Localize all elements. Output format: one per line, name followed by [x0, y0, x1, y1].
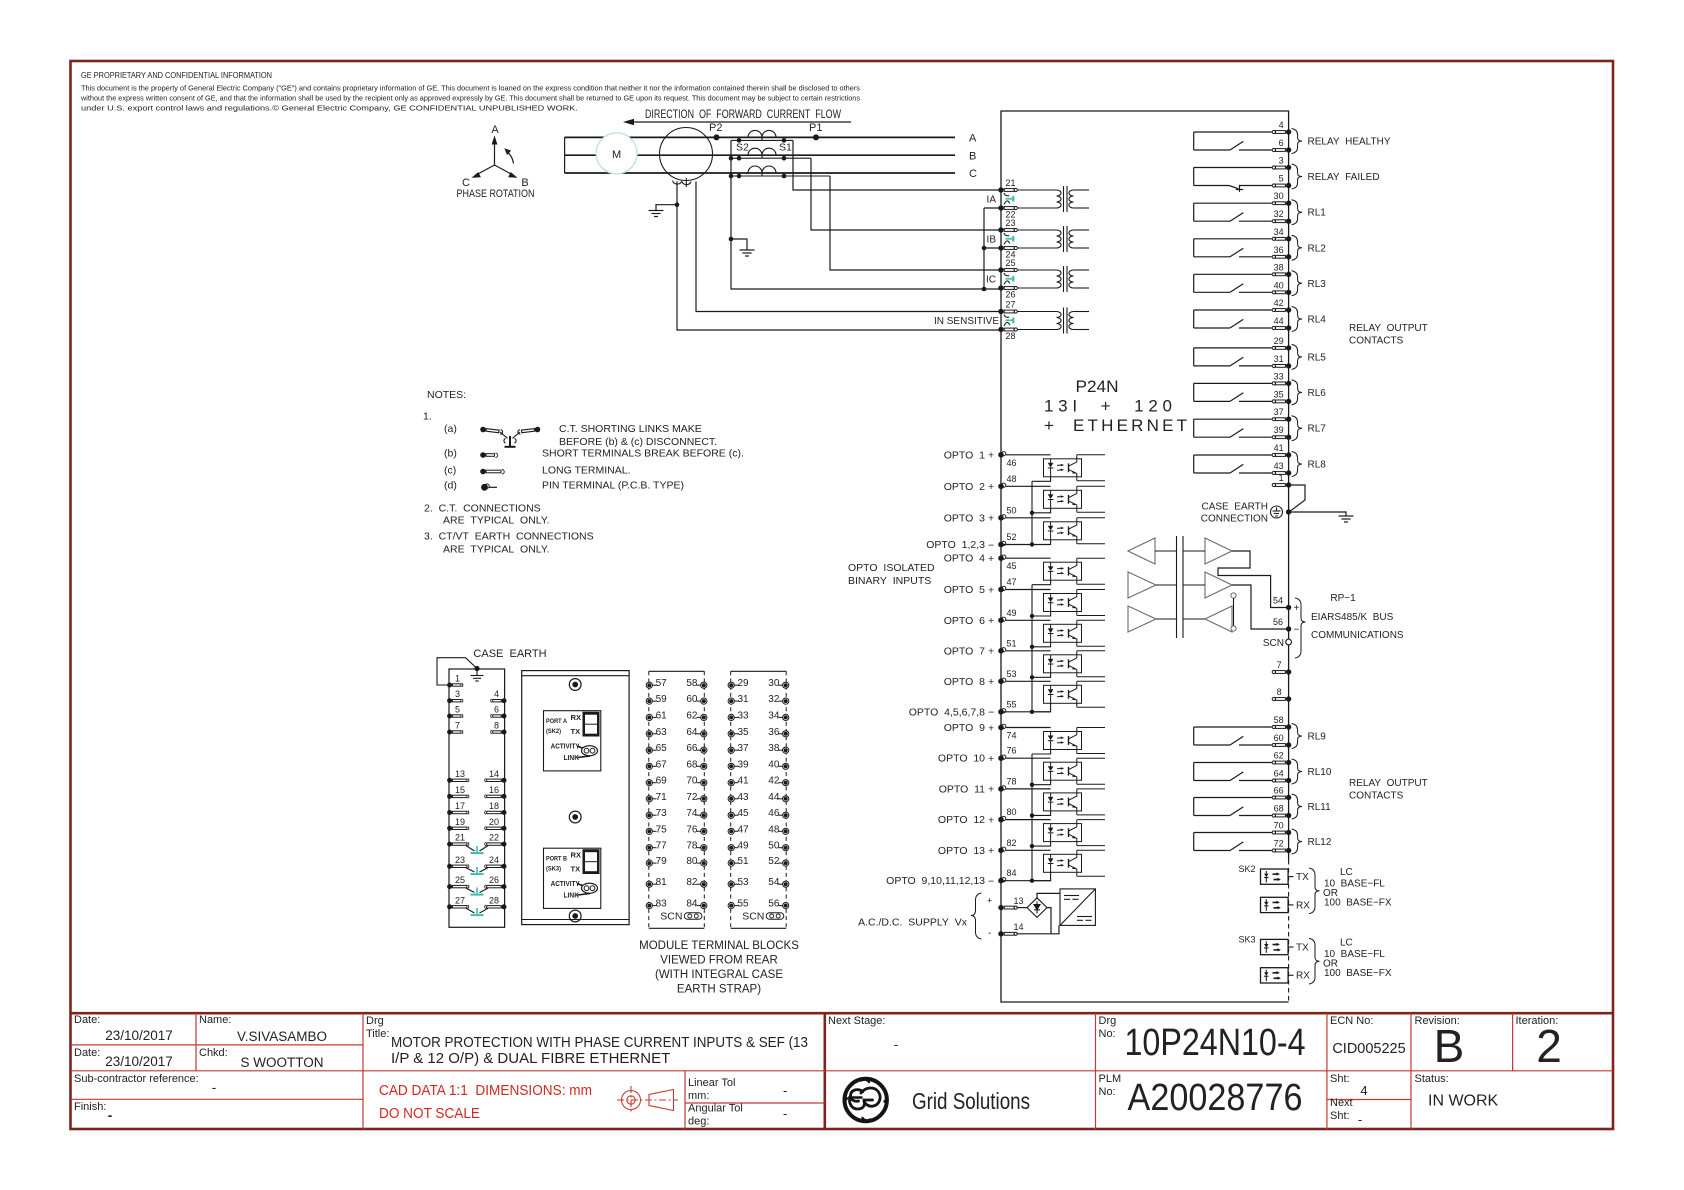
- svg-text:OPTO 11: OPTO 11: [939, 783, 985, 795]
- svg-text:29: 29: [1274, 336, 1284, 346]
- block TB1 terminal 67: [646, 763, 656, 769]
- svg-text:31: 31: [1274, 354, 1284, 364]
- block TB2 terminal 34: [779, 714, 789, 720]
- svg-text:16: 16: [489, 785, 499, 795]
- svg-text:OPTO 8: OPTO 8: [944, 676, 985, 688]
- terminal 4: [1272, 129, 1291, 134]
- svg-text:25: 25: [1006, 258, 1016, 268]
- block TB2 terminal 29: [728, 682, 738, 688]
- strip terminal 28: [485, 904, 507, 909]
- svg-text:36: 36: [768, 727, 780, 738]
- svg-text:56: 56: [1273, 617, 1283, 627]
- svg-text:4: 4: [494, 689, 499, 699]
- svg-text:18: 18: [489, 801, 499, 811]
- svg-text:39: 39: [738, 759, 750, 770]
- block TB2 terminal 36: [779, 731, 789, 737]
- wire bridge right to 14: [1017, 908, 1060, 934]
- svg-text:OPTO ISOLATED: OPTO ISOLATED: [848, 562, 935, 574]
- svg-text:Status:: Status:: [1415, 1073, 1449, 1085]
- svg-text:1: 1: [455, 674, 460, 684]
- svg-text:6: 6: [1279, 138, 1284, 148]
- svg-text:17: 17: [455, 801, 465, 811]
- block TB1 terminal 73: [646, 812, 656, 818]
- svg-text:78: 78: [1007, 776, 1017, 786]
- svg-text:OPTO 1,2,3: OPTO 1,2,3: [926, 539, 985, 551]
- svg-text:RL4: RL4: [1308, 315, 1327, 326]
- svg-text:OPTO 6: OPTO 6: [944, 615, 985, 627]
- proprietary notice body: [80, 84, 860, 113]
- strip terminal 3: [447, 698, 463, 703]
- svg-text:23/10/2017: 23/10/2017: [105, 1054, 173, 1069]
- svg-text:72: 72: [686, 792, 698, 803]
- block TB1 terminal 70: [697, 780, 707, 786]
- motor M: [596, 133, 637, 174]
- buffer U2 tx left: [1128, 572, 1156, 598]
- opto input terminal 80 (OPTO 12): [998, 816, 1006, 822]
- svg-text:V.SIVASAMBO: V.SIVASAMBO: [237, 1029, 327, 1044]
- svg-text:+: +: [988, 584, 994, 596]
- block TB2 terminal 49: [728, 845, 738, 851]
- strip shorting earth link: [466, 846, 475, 851]
- svg-text:84: 84: [1007, 868, 1017, 878]
- svg-text:79: 79: [656, 856, 668, 867]
- svg-text:58: 58: [1274, 715, 1284, 725]
- svg-text:5: 5: [455, 705, 460, 715]
- svg-text:37: 37: [738, 743, 750, 754]
- svg-text:2: 2: [1536, 1020, 1562, 1072]
- svg-text:LC: LC: [1340, 937, 1353, 948]
- svg-text:73: 73: [656, 808, 668, 819]
- optocoupler U-OPTO4: [1006, 558, 1105, 585]
- svg-text:VIEWED FROM REAR: VIEWED FROM REAR: [660, 955, 778, 967]
- svg-text:27: 27: [455, 895, 465, 905]
- svg-text:DIRECTION OF FORWARD CURREN: DIRECTION OF FORWARD CURRENT FLOW: [645, 109, 841, 121]
- block TB2 terminal 54: [779, 881, 789, 887]
- opto minus bus group 2: [1031, 585, 1033, 712]
- svg-text:Sht:: Sht:: [1330, 1073, 1350, 1085]
- block TB2 terminal 33: [728, 714, 738, 720]
- svg-text:46: 46: [1007, 458, 1017, 468]
- svg-text:ACTIVITY: ACTIVITY: [551, 742, 580, 751]
- strip terminal 22: [485, 842, 507, 847]
- relay contact RL11: [1194, 798, 1277, 816]
- svg-text:69: 69: [656, 776, 668, 787]
- svg-text:RELAY FAILED: RELAY FAILED: [1308, 172, 1380, 183]
- svg-text:IA: IA: [987, 194, 997, 205]
- relay contact RELAY HEALTHY: [1194, 132, 1277, 150]
- svg-text:PHASE ROTATION: PHASE ROTATION: [457, 188, 535, 200]
- core CT secondary humps: [673, 181, 692, 185]
- svg-text:67: 67: [656, 759, 668, 770]
- relay contact RELAY FAILED: [1194, 168, 1277, 192]
- brace RL7: [1292, 416, 1303, 441]
- svg-text:40: 40: [768, 759, 780, 770]
- terminal 64: [1272, 778, 1291, 783]
- svg-text:34: 34: [768, 710, 780, 721]
- svg-text:LC: LC: [1340, 867, 1353, 878]
- block TB1 terminal 63: [646, 731, 656, 737]
- ground (case earth): [1339, 516, 1354, 522]
- note (d) symbol: pin terminal: [481, 484, 497, 491]
- svg-text:P24N: P24N: [1076, 377, 1119, 396]
- optocoupler U-OPTO11: [1006, 789, 1105, 816]
- svg-text:36: 36: [1274, 245, 1284, 255]
- fiber TX SK2: [1261, 869, 1294, 884]
- brace RL6: [1292, 380, 1303, 405]
- svg-text:20: 20: [489, 817, 499, 827]
- P24N model label: [1044, 377, 1187, 435]
- ground (CT common): [740, 250, 755, 256]
- svg-text:Title:: Title:: [366, 1028, 389, 1040]
- CT primary phase C: [748, 166, 776, 173]
- strip shorting earth link: [466, 888, 475, 892]
- block TB2 terminal 56: [779, 903, 789, 909]
- svg-text:3: 3: [1279, 156, 1284, 166]
- svg-text:RL3: RL3: [1308, 279, 1327, 290]
- opto minus bus group 1: [1031, 481, 1033, 544]
- opto input terminal 82 (OPTO 13): [998, 847, 1006, 853]
- svg-text:52: 52: [768, 856, 780, 867]
- svg-text:SCN: SCN: [1263, 638, 1284, 649]
- opto input terminal 49 (OPTO 6): [998, 617, 1006, 623]
- svg-text:No:: No:: [1099, 1086, 1116, 1098]
- svg-text:81: 81: [656, 877, 668, 888]
- strip terminal 23: [447, 864, 469, 869]
- relay contact RL5: [1194, 348, 1277, 366]
- strip terminal 6: [491, 714, 507, 719]
- svg-text:OPTO 4: OPTO 4: [944, 553, 985, 565]
- svg-text:47: 47: [1007, 577, 1017, 587]
- svg-text:Date:: Date:: [74, 1047, 100, 1059]
- svg-text:GE PROPRIETARY AND CONFIDENTIA: GE PROPRIETARY AND CONFIDENTIAL INFORMAT…: [81, 71, 272, 80]
- svg-text:4: 4: [1360, 1083, 1367, 1098]
- svg-text:A.C./D.C. SUPPLY Vx: A.C./D.C. SUPPLY Vx: [858, 917, 968, 929]
- svg-text:46: 46: [768, 808, 780, 819]
- svg-text:RX: RX: [1296, 900, 1310, 911]
- svg-text:(WITH INTEGRAL CASE: (WITH INTEGRAL CASE: [655, 969, 783, 981]
- relay contact RL6: [1194, 383, 1277, 401]
- svg-text:RX: RX: [571, 713, 582, 722]
- opto input terminal 84 (OPTO 9,10,11,12,13): [998, 878, 1006, 884]
- fiber brace SK3: [1309, 938, 1320, 984]
- svg-text:TX: TX: [1296, 872, 1309, 883]
- svg-text:BEFORE (b) & (c) DISCONNECT.: BEFORE (b) & (c) DISCONNECT.: [559, 436, 717, 448]
- svg-text:LINK: LINK: [564, 753, 580, 762]
- title block inner red lines: [71, 1013, 1614, 1129]
- svg-text:53: 53: [1007, 669, 1017, 679]
- svg-text:(c): (c): [444, 465, 456, 477]
- svg-text:EARTH STRAP): EARTH STRAP): [677, 984, 761, 996]
- block TB1 terminal 83: [646, 903, 656, 909]
- opto minus bus group 3: [1031, 754, 1033, 881]
- svg-text:OPTO 1: OPTO 1: [944, 449, 985, 461]
- brace RL11: [1292, 794, 1303, 819]
- svg-text:Angular Tol: Angular Tol: [688, 1103, 743, 1115]
- svg-text:Name:: Name:: [199, 1014, 231, 1026]
- svg-text:49: 49: [1007, 608, 1017, 618]
- svg-text:58: 58: [686, 678, 698, 689]
- enable link wire: [1233, 598, 1235, 626]
- opto input terminal 45 (OPTO 4): [998, 555, 1006, 561]
- block TB2 terminal 53: [728, 881, 738, 887]
- terminal 60: [1272, 742, 1291, 747]
- terminal 41: [1272, 452, 1291, 457]
- svg-text:43: 43: [1274, 461, 1284, 471]
- svg-text:OPTO 9: OPTO 9: [944, 722, 985, 734]
- note (a) symbol: shorting link: [480, 426, 541, 446]
- terminal 39: [1272, 435, 1291, 440]
- svg-text:70: 70: [1274, 821, 1284, 831]
- svg-text:(SK3): (SK3): [546, 866, 561, 873]
- svg-text:+: +: [988, 753, 994, 765]
- terminal 44: [1272, 325, 1291, 330]
- svg-text:A: A: [969, 133, 977, 145]
- svg-text:13: 13: [455, 769, 465, 779]
- block TB1 terminal 74: [697, 812, 707, 818]
- optocoupler U-OPTO12: [1006, 820, 1105, 847]
- svg-text:BINARY INPUTS: BINARY INPUTS: [848, 575, 931, 587]
- brace RL10: [1292, 759, 1303, 784]
- svg-text:50: 50: [768, 841, 780, 852]
- svg-text:62: 62: [1274, 751, 1284, 761]
- svg-text:66: 66: [1274, 786, 1284, 796]
- svg-text:14: 14: [1014, 922, 1024, 932]
- svg-text:78: 78: [686, 841, 698, 852]
- svg-text:71: 71: [656, 792, 668, 803]
- svg-text:76: 76: [1007, 746, 1017, 756]
- terminal 14: [998, 931, 1017, 936]
- block TB2 terminal 31: [728, 698, 738, 704]
- svg-text:56: 56: [768, 899, 780, 910]
- opto input terminal 55 (OPTO 4,5,6,7,8): [998, 709, 1006, 715]
- svg-text:64: 64: [1274, 769, 1284, 779]
- svg-text:61: 61: [656, 710, 668, 721]
- terminal 31: [1272, 363, 1291, 368]
- svg-text:B: B: [1434, 1020, 1465, 1072]
- svg-text:84: 84: [686, 899, 698, 910]
- svg-text:OPTO 10: OPTO 10: [938, 753, 985, 765]
- svg-text:44: 44: [1274, 316, 1284, 326]
- phase rotation symbol: [472, 136, 518, 178]
- relay contact RL8: [1194, 455, 1277, 473]
- svg-text:37: 37: [1274, 407, 1284, 417]
- svg-text:CONTACTS: CONTACTS: [1349, 791, 1404, 802]
- svg-text:P1: P1: [809, 122, 822, 134]
- block TB1 terminal 64: [697, 731, 707, 737]
- title block outer thick lines: [71, 1013, 1614, 1129]
- opto input terminal 47 (OPTO 5): [998, 586, 1006, 592]
- strip terminal 15: [447, 794, 469, 799]
- svg-text:+: +: [988, 450, 994, 462]
- case earth stud dot: [1286, 509, 1291, 514]
- svg-text:49: 49: [738, 841, 750, 852]
- terminal 62: [1272, 760, 1291, 765]
- phase bus B: [565, 154, 955, 156]
- strip terminal 8: [491, 730, 507, 735]
- svg-text:M: M: [612, 149, 621, 161]
- block TB2 terminal 50: [779, 845, 789, 851]
- supply brace: [971, 893, 982, 939]
- terminal 3: [1272, 165, 1291, 170]
- strip terminal 14: [485, 778, 507, 783]
- wire opto common 55: [1001, 711, 1051, 713]
- svg-text:CONTACTS: CONTACTS: [1349, 336, 1404, 347]
- svg-text:-: -: [108, 1108, 113, 1123]
- CT secondary phase B: [731, 157, 811, 159]
- block TB1 terminal 78: [697, 845, 707, 851]
- node P2: [714, 134, 720, 140]
- svg-text:48: 48: [768, 824, 780, 835]
- svg-text:Drg: Drg: [1099, 1015, 1117, 1027]
- block TB2 terminal 30: [779, 682, 789, 688]
- svg-text:50: 50: [1007, 505, 1017, 515]
- svg-text:deg:: deg:: [688, 1116, 709, 1128]
- svg-text:-: -: [212, 1080, 217, 1095]
- svg-text:LINK: LINK: [564, 891, 580, 900]
- svg-text:C.T. SHORTING LINKS MAKE: C.T. SHORTING LINKS MAKE: [559, 423, 702, 435]
- terminal 33: [1272, 381, 1291, 386]
- svg-text:S1: S1: [779, 142, 792, 154]
- strip terminal 18: [485, 810, 507, 815]
- strip earth symbol: [474, 666, 479, 671]
- svg-text:MODULE TERMINAL BLOCKS: MODULE TERMINAL BLOCKS: [639, 940, 799, 952]
- input transformer IN SENSITIVE: [1017, 308, 1089, 334]
- block TB2 terminal 32: [779, 698, 789, 704]
- svg-text:48: 48: [1007, 474, 1017, 484]
- svg-text:7: 7: [455, 721, 460, 731]
- svg-text:RL10: RL10: [1308, 767, 1332, 778]
- svg-text:34: 34: [1274, 227, 1284, 237]
- terminal 66: [1272, 795, 1291, 800]
- svg-text:PLM: PLM: [1099, 1073, 1122, 1085]
- svg-text:Chkd:: Chkd:: [199, 1047, 228, 1059]
- terminal 1: [1272, 482, 1291, 487]
- svg-text:13: 13: [1014, 896, 1024, 906]
- svg-text:21: 21: [1006, 178, 1016, 188]
- block TB1 terminal 81: [646, 881, 656, 887]
- block TB2 terminal 38: [779, 747, 789, 753]
- svg-text:63: 63: [656, 727, 668, 738]
- CT shorting link: [1004, 315, 1013, 326]
- svg-text:OPTO 7: OPTO 7: [944, 645, 985, 657]
- brace RL3: [1292, 271, 1303, 296]
- block TB1 terminal 61: [646, 714, 656, 720]
- svg-text:40: 40: [1274, 280, 1284, 290]
- svg-text:28: 28: [1006, 331, 1016, 341]
- panel screw bottom: [569, 910, 581, 922]
- block TB1 terminal 77: [646, 845, 656, 851]
- terminal 38: [1272, 272, 1291, 277]
- svg-text:1.: 1.: [423, 411, 432, 423]
- svg-text:55: 55: [1007, 699, 1017, 709]
- svg-text:82: 82: [686, 877, 698, 888]
- svg-text:OPTO 4,5,6,7,8: OPTO 4,5,6,7,8: [909, 706, 985, 718]
- relay contact RL3: [1194, 274, 1277, 292]
- svg-text:A: A: [491, 124, 499, 136]
- svg-text:62: 62: [686, 710, 698, 721]
- wire S1B to terminal 23: [811, 158, 1001, 230]
- strip terminal 20: [485, 826, 507, 831]
- svg-text:C: C: [969, 168, 977, 180]
- terminal 21: [998, 187, 1017, 192]
- svg-text:TX: TX: [1296, 942, 1309, 953]
- fiber RX SK2: [1261, 897, 1294, 912]
- svg-text:2. C.T. CONNECTIONS: 2. C.T. CONNECTIONS: [424, 503, 541, 515]
- svg-text:14: 14: [489, 769, 499, 779]
- svg-text:RL11: RL11: [1308, 802, 1332, 813]
- brace RELAY HEALTHY: [1292, 129, 1303, 154]
- panel screw top: [569, 679, 581, 691]
- phase bus A: [565, 136, 955, 138]
- terminal SCN: [1286, 639, 1292, 645]
- wire 13 to bridge: [1017, 907, 1028, 909]
- svg-text:+: +: [1294, 603, 1300, 614]
- svg-text:IC: IC: [986, 274, 996, 285]
- svg-text:mm:: mm:: [688, 1090, 709, 1102]
- svg-text:SCN: SCN: [660, 911, 682, 923]
- opto input terminal 46 (OPTO 1): [998, 452, 1006, 458]
- CT common S2 bus: [731, 140, 1001, 289]
- svg-text:15: 15: [455, 785, 465, 795]
- svg-text:RX: RX: [1296, 971, 1310, 982]
- wire U5 to terminal 56: [1232, 585, 1289, 629]
- block TB2 terminal 42: [779, 780, 789, 786]
- block TB1 terminal 58: [697, 682, 707, 688]
- svg-text:59: 59: [656, 694, 668, 705]
- svg-text:3: 3: [455, 689, 460, 699]
- svg-text:19: 19: [455, 817, 465, 827]
- svg-text:21: 21: [455, 833, 465, 843]
- svg-text:68: 68: [686, 759, 698, 770]
- terminal 22: [998, 205, 1017, 210]
- svg-text:-: -: [783, 1083, 787, 1098]
- svg-text:DO NOT SCALE: DO NOT SCALE: [379, 1106, 480, 1122]
- svg-text:42: 42: [1274, 298, 1284, 308]
- svg-text:64: 64: [686, 727, 698, 738]
- block TB2 terminal 37: [728, 747, 738, 753]
- svg-text:1: 1: [1279, 473, 1284, 483]
- opto input terminal 48 (OPTO 2): [998, 483, 1006, 489]
- svg-text:RX: RX: [571, 851, 582, 860]
- CT primary phase B: [748, 148, 776, 155]
- svg-text:83: 83: [656, 899, 668, 910]
- svg-text:CONNECTION: CONNECTION: [1201, 514, 1268, 525]
- block TB2 terminal 52: [779, 860, 789, 866]
- svg-text:+: +: [988, 676, 994, 688]
- panel PORT A block: [544, 711, 601, 771]
- svg-text:Grid Solutions: Grid Solutions: [912, 1088, 1030, 1114]
- case earth circle symbol: [1271, 506, 1283, 518]
- svg-text:22: 22: [489, 833, 499, 843]
- svg-text:RL9: RL9: [1308, 732, 1327, 743]
- wire case earth to ground: [1289, 512, 1346, 516]
- svg-text:26: 26: [1006, 290, 1016, 300]
- note (b) symbol: short terminal: [480, 452, 498, 458]
- optocoupler U-OPTO2: [1006, 486, 1105, 513]
- svg-text:51: 51: [738, 856, 750, 867]
- svg-text:51: 51: [1007, 638, 1017, 648]
- svg-text:74: 74: [1007, 731, 1017, 741]
- terminal 43: [1272, 470, 1291, 475]
- svg-text:24: 24: [489, 855, 499, 865]
- optocoupler U-OPTO1: [1006, 455, 1105, 482]
- strip terminal 13: [447, 778, 469, 783]
- wire terminal1 to earth stud: [437, 658, 477, 685]
- terminal 56: [1286, 626, 1291, 631]
- svg-text:+: +: [988, 615, 994, 627]
- optocoupler U-OPTO13: [1006, 850, 1105, 880]
- core CT earth branch: [656, 205, 677, 211]
